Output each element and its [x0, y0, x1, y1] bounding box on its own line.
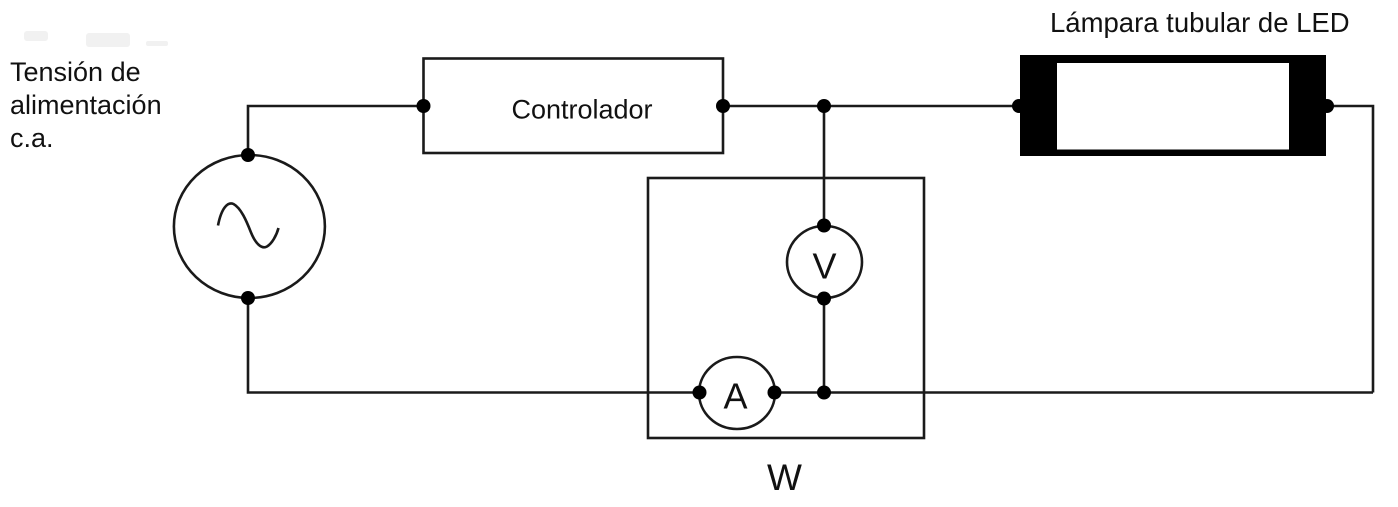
- Controlador box: [424, 59, 724, 154]
- svg-text:Lámpara tubular de LED: Lámpara tubular de LED: [1050, 7, 1350, 38]
- svg-text:c.a.: c.a.: [10, 123, 54, 153]
- junction dot: lamp left terminal: [1012, 99, 1026, 113]
- junction dot: lamp right terminal: [1320, 99, 1334, 113]
- faint erased smudges top-left: [24, 31, 168, 47]
- junction dot: V top: [817, 219, 831, 233]
- AC source circle: [174, 155, 325, 298]
- svg-text:alimentación: alimentación: [10, 90, 162, 120]
- wire: AC top to Controlador left: [248, 106, 424, 155]
- junction dot: A left: [693, 386, 707, 400]
- svg-text:W: W: [767, 457, 802, 498]
- junction dot: A right: [768, 386, 782, 400]
- ammeter A: [699, 357, 775, 429]
- junction dot: bottom branch below V: [817, 386, 831, 400]
- wire: bottom right run (ammeter right to right riser): [775, 391, 1374, 394]
- wattmeter box W: [648, 178, 924, 438]
- wire: top junction down to voltmeter: [823, 106, 826, 226]
- wire: voltmeter bottom to bottom junction: [823, 299, 826, 393]
- AC sine symbol: [218, 203, 279, 247]
- voltmeter V: [787, 226, 862, 298]
- svg-text:Tensión de: Tensión de: [10, 57, 141, 87]
- svg-text:Controlador: Controlador: [511, 95, 652, 125]
- junction dot: V bottom: [817, 292, 831, 306]
- svg-text:V: V: [812, 246, 836, 287]
- svg-text:A: A: [723, 376, 747, 417]
- junction dot: AC top: [241, 148, 255, 162]
- junction dot: AC bottom: [241, 291, 255, 305]
- LED tube lamp: [1020, 55, 1326, 156]
- junction dot: Controlador left: [417, 99, 431, 113]
- label: Tensión de alimentación c.a.: [10, 57, 162, 153]
- wire: lamp right to right edge and down: [1326, 106, 1373, 393]
- wire: Controlador right to lamp left: [723, 105, 1020, 108]
- junction dot: Controlador right: [716, 99, 730, 113]
- wire: bottom left run (AC bottom down and right to ammeter): [248, 298, 700, 393]
- junction dot: top branch to V: [817, 99, 831, 113]
